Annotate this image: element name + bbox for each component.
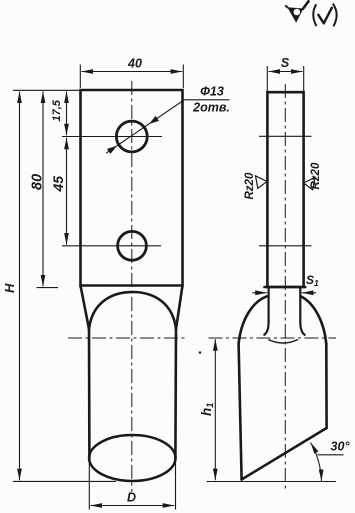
svg-text:80: 80 — [30, 174, 46, 190]
svg-text:H: H — [2, 283, 17, 293]
parenthesis left of check note — [313, 4, 316, 26]
leader arrow lower — [107, 146, 117, 154]
front vertical centerline — [131, 81, 133, 492]
angle arc 30 degrees — [311, 443, 322, 482]
svg-text:S1: S1 — [306, 273, 319, 288]
svg-text:40: 40 — [127, 57, 142, 71]
svg-text:Rz20: Rz20 — [244, 172, 256, 199]
hole height tick upper — [259, 135, 312, 137]
bottom extension line side — [207, 481, 337, 483]
dimension H line — [19, 92, 21, 481]
svg-text:S: S — [281, 56, 290, 70]
side vertical centerline — [284, 84, 286, 491]
leader arrow upper — [149, 116, 159, 124]
dimension 80 extension bottom — [37, 287, 59, 289]
hole height tick lower — [259, 245, 312, 247]
top extension line (H/80/17.5) — [13, 89, 80, 91]
barrel bottom ellipse — [89, 435, 175, 481]
dimension S extension right — [303, 66, 305, 91]
30 degree cut line — [242, 428, 327, 480]
svg-text:30°: 30° — [331, 440, 351, 454]
stray ink dot — [199, 351, 202, 354]
dimension 40 extension right — [182, 65, 184, 89]
dimension D line — [91, 505, 175, 507]
angle note shelf — [318, 454, 344, 456]
tab outline side — [267, 92, 303, 287]
dimension 17,5 line — [66, 92, 68, 136]
crimped cable arc — [268, 340, 298, 344]
dimension D extension left — [88, 459, 90, 510]
dimension S line — [269, 71, 303, 73]
svg-text:2отв.: 2отв. — [192, 101, 230, 115]
taper right edge — [176, 286, 183, 330]
roughness symbol (rest-of-surfaces mark) — [285, 1, 308, 23]
hole 2 centerline — [62, 245, 161, 247]
tab outline front — [81, 90, 183, 286]
svg-text:h1: h1 — [199, 403, 215, 416]
parenthesis right of check note — [333, 4, 337, 27]
dimension 80 line — [42, 92, 44, 287]
leader line Ф13 — [106, 100, 230, 153]
dome arc side left — [239, 296, 267, 344]
dimension h1 line — [214, 339, 216, 480]
hole 2 (Ф13) — [118, 231, 147, 260]
svg-text:D: D — [127, 491, 136, 505]
svg-text:45: 45 — [50, 176, 66, 193]
bottom extension line (H) — [13, 480, 116, 482]
crimp chain line side — [209, 337, 337, 339]
check mark in note — [318, 8, 332, 23]
neck right edge — [300, 287, 304, 335]
barrel left edge front — [88, 329, 91, 458]
svg-text:17,5: 17,5 — [51, 99, 63, 121]
dimension S1 arrow right — [302, 292, 316, 294]
taper left edge — [81, 286, 90, 330]
dimension S extension left — [266, 66, 268, 91]
svg-text:Ф13: Ф13 — [200, 85, 224, 99]
barrel right edge front — [174, 329, 177, 458]
hole 1 (Ф13) — [116, 121, 147, 152]
Rz20 symbol right — [304, 177, 316, 190]
crimp chain line front — [68, 337, 188, 339]
dome arc side right — [301, 296, 327, 344]
dimension 45 line — [66, 138, 68, 245]
barrel left edge side — [239, 344, 242, 480]
dome arc front — [89, 292, 176, 329]
dimension D extension right — [175, 446, 177, 510]
barrel right edge side — [325, 344, 328, 428]
tab bottom line side — [265, 286, 306, 289]
dimension 40 line — [82, 71, 183, 73]
Rz20 symbol left — [256, 176, 268, 189]
dimension S1 arrow left — [253, 292, 267, 294]
hole 1 centerline — [62, 136, 162, 138]
svg-text:Rz20: Rz20 — [310, 162, 322, 189]
neck left edge — [264, 287, 268, 335]
dimension 40 extension left — [79, 65, 81, 89]
